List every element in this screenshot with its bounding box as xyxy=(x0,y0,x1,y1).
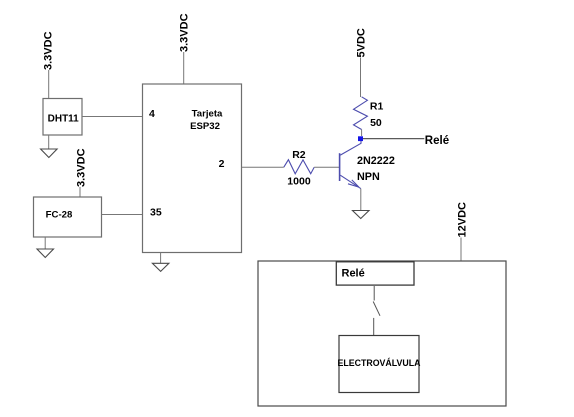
wire switch to electrovalve xyxy=(373,318,375,336)
sensor U3 FC-28 xyxy=(34,197,102,237)
wire 5VDC flag to R1 xyxy=(360,58,362,98)
MCU U1 Tarjeta ESP32 xyxy=(143,84,242,253)
svg-text:FC-28: FC-28 xyxy=(46,210,73,221)
actuator box ELECTROVALVULA xyxy=(338,336,422,393)
wire R2 to Q1 base xyxy=(314,166,339,168)
svg-text:50: 50 xyxy=(370,117,382,129)
enclosure box (valve unit) xyxy=(258,261,506,406)
ground (below FC-28) xyxy=(37,249,54,258)
svg-text:ELECTROVÁLVULA: ELECTROVÁLVULA xyxy=(338,358,422,368)
svg-text:Relé: Relé xyxy=(342,267,365,279)
wire DHT11 bottom to ground xyxy=(48,135,50,149)
svg-text:5VDC: 5VDC xyxy=(356,28,368,57)
svg-text:Tarjeta: Tarjeta xyxy=(192,109,223,120)
wire FC-28 to ESP32 pin 35 xyxy=(102,214,143,216)
svg-text:R1: R1 xyxy=(370,101,384,113)
wire 3.3VDC flag to FC-28 top xyxy=(79,187,81,197)
svg-text:3.3VDC: 3.3VDC xyxy=(179,13,191,52)
wire junction to Rele net label xyxy=(363,138,424,140)
relay box Rele xyxy=(336,262,414,285)
wire FC-28 bottom to ground xyxy=(44,237,46,249)
node junction (collector / R1 / relay net) xyxy=(358,136,363,141)
wire DHT11 to ESP32 pin 4 xyxy=(82,116,143,118)
wire relay to switch xyxy=(373,286,375,301)
sensor U2 DHT11 xyxy=(43,99,82,136)
svg-text:12VDC: 12VDC xyxy=(456,202,468,238)
resistor R2 xyxy=(284,149,314,188)
wire 3.3VDC flag to ESP32 top xyxy=(183,52,185,84)
svg-text:Relé: Relé xyxy=(425,135,449,147)
wire R1 bottom to junction xyxy=(361,130,363,137)
switch blade xyxy=(373,302,380,316)
transistor Q1 2N2222 NPN xyxy=(340,141,395,189)
svg-text:35: 35 xyxy=(150,206,162,218)
svg-text:ESP32: ESP32 xyxy=(190,121,220,132)
svg-text:NPN: NPN xyxy=(357,171,380,183)
collector lead xyxy=(340,141,361,155)
base bar xyxy=(339,153,341,181)
ground (below ESP32) xyxy=(152,263,169,271)
svg-text:3.3VDC: 3.3VDC xyxy=(43,31,55,70)
wire Q1 emitter to ground xyxy=(360,189,362,211)
svg-text:4: 4 xyxy=(149,108,155,120)
svg-text:3.3VDC: 3.3VDC xyxy=(76,148,88,187)
svg-text:2: 2 xyxy=(219,158,225,170)
emitter lead xyxy=(340,175,361,188)
svg-text:2N2222: 2N2222 xyxy=(357,155,395,167)
emitter arrow xyxy=(348,180,359,187)
svg-text:1000: 1000 xyxy=(287,176,311,188)
resistor R1 xyxy=(354,97,384,130)
wire ESP32 pin 2 to R2 xyxy=(242,166,284,168)
wire 12VDC flag to enclosure top xyxy=(460,238,462,262)
ground (below Q1) xyxy=(353,211,370,219)
wire 3.3VDC flag to DHT11 top xyxy=(48,70,50,99)
svg-text:R2: R2 xyxy=(292,149,306,161)
wire ESP32 bottom to ground xyxy=(160,253,162,264)
svg-text:DHT11: DHT11 xyxy=(48,113,80,124)
ground (below DHT11) xyxy=(41,149,58,158)
